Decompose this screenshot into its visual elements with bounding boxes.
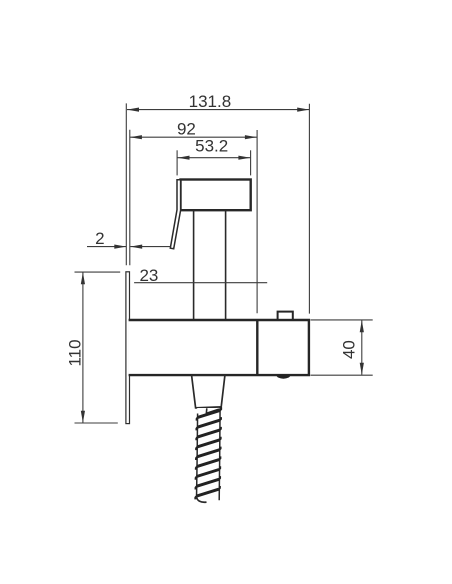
extension line wall face (to 92)	[129, 130, 131, 265]
hose left boundary	[197, 414, 198, 500]
arrow 40 bottom	[360, 363, 364, 375]
flexible hose body	[197, 408, 220, 501]
outlet bump	[276, 375, 290, 379]
arrow 53.2 right	[238, 156, 250, 160]
extension line 92 right	[256, 130, 258, 313]
dimension 92	[130, 136, 257, 138]
extension line 53.2 left	[176, 150, 178, 175]
wall plate	[126, 272, 130, 424]
extension line 110 bottom	[75, 422, 118, 424]
hose connector	[192, 375, 225, 408]
extension line 131.8 right	[308, 104, 310, 314]
extension line 53.2 right	[250, 150, 252, 175]
extension line 110 top	[75, 271, 121, 273]
dimension 53.2	[178, 157, 251, 159]
sprayer head	[181, 180, 251, 211]
leader 23	[134, 282, 267, 284]
arrow 110 bottom	[81, 411, 85, 423]
svg-text:110: 110	[66, 339, 85, 366]
valve body	[129, 320, 309, 375]
svg-text:53.2: 53.2	[195, 137, 228, 156]
hose start seam	[206, 410, 219, 414]
arrow 53.2 left	[178, 156, 190, 160]
dimension 110	[82, 272, 84, 423]
hose right boundary	[218, 406, 221, 500]
dimension 2 leader right	[130, 246, 170, 248]
extension line 40 bottom	[311, 374, 373, 376]
arrow 92 right	[245, 135, 257, 139]
dimension 131.8	[127, 109, 309, 111]
arrow 131.8 left	[127, 108, 139, 112]
control button	[278, 312, 293, 320]
arrow 92 left	[130, 135, 142, 139]
arrow 40 top	[360, 320, 364, 332]
svg-text:2: 2	[95, 229, 104, 248]
arrow 2 right	[130, 245, 142, 249]
svg-text:131.8: 131.8	[189, 92, 232, 111]
svg-text:40: 40	[340, 340, 359, 359]
arrow 2 left	[114, 245, 126, 249]
hose end cap	[197, 497, 207, 503]
valve body division	[256, 320, 258, 375]
extension line left (to 131.8)	[125, 103, 127, 265]
dimension 2 leader left	[87, 246, 126, 248]
svg-text:23: 23	[139, 266, 158, 285]
hose seam hooks right	[219, 407, 222, 489]
hose seam hooks left	[195, 417, 197, 499]
arrow 110 top	[81, 272, 85, 284]
dimension 40	[361, 320, 363, 375]
arrow 131.8 right	[297, 108, 309, 112]
extension line 40 top	[311, 319, 373, 321]
hose start jog	[205, 408, 208, 414]
lever handle	[170, 180, 180, 249]
riser pipe	[194, 210, 226, 320]
svg-text:92: 92	[177, 119, 196, 138]
hose spiral seams	[196, 410, 220, 496]
